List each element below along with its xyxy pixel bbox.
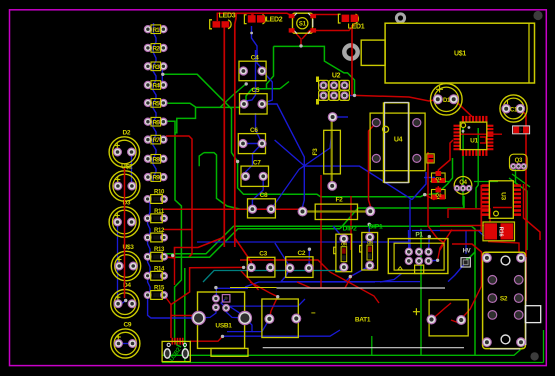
node via C4-C5 [245, 82, 248, 85]
wire blue resistor column R1-R9 [153, 23, 156, 182]
relay U4 [370, 102, 425, 182]
wire red radial column link [124, 168, 126, 298]
wire red branch D1 to U1 [454, 99, 472, 116]
resistor R13 [144, 247, 167, 261]
svg-text:D3: D3 [122, 199, 130, 206]
wire red F3 region drop [350, 196, 352, 250]
switch S2 [483, 252, 541, 349]
resistor R7 [144, 135, 167, 144]
wire blue USB1 pads [215, 288, 217, 299]
wire red S2 top-left feed [452, 244, 482, 286]
wire red R11 to F2 [163, 209, 303, 211]
wire blue long mid horizontal [275, 140, 412, 200]
LED1 [338, 14, 364, 31]
wire blue F3 top to U2 region [333, 116, 348, 118]
node via C3 left [242, 266, 245, 269]
battery BAT1 outline and labels [230, 288, 464, 348]
wire blue C4 right pad drop [262, 71, 272, 105]
capacitor C8 [248, 192, 276, 218]
wire blue R10-R15 left column [148, 199, 150, 295]
wire green Q1 area horizontals [430, 181, 450, 183]
wire teal mid run [203, 271, 345, 283]
svg-text:R1: R1 [152, 27, 160, 34]
svg-text:Q1: Q1 [435, 176, 441, 182]
wire red x192 rail [166, 136, 192, 257]
wire red U4 to F2 [369, 123, 377, 212]
svg-text:U$1: U$1 [454, 51, 466, 58]
wire blue C7 down through C8 [252, 176, 263, 209]
resistor R11 [144, 209, 167, 223]
node via bus left [171, 254, 174, 257]
svg-text:D1: D1 [443, 98, 451, 104]
header U2 [316, 73, 349, 105]
wire red S1 left to LED2 [253, 13, 291, 16]
wire red x174 down [174, 258, 176, 285]
connector P1 [388, 232, 448, 274]
svg-text:LED2: LED2 [266, 17, 283, 24]
svg-text:C6: C6 [250, 127, 258, 134]
wire red LED3-LED2 top link [217, 13, 236, 21]
wire red via to Q2 [425, 195, 436, 200]
wire green staircase R5 to C4/C5 via [164, 103, 196, 132]
hole mounting left of U$1 [344, 45, 357, 58]
wire red diag to DIP bottom [330, 272, 379, 303]
wire red R16 feeds [448, 209, 490, 222]
node via Q2 green [423, 193, 426, 196]
node via U2 right [353, 94, 356, 97]
svg-text:R4: R4 [152, 83, 160, 90]
resistor R6 [144, 117, 167, 126]
svg-text:C5: C5 [251, 87, 259, 94]
wire red U1 crossbar [460, 133, 502, 135]
wire green U1 pin down-leg 2 [476, 128, 478, 208]
node via U1 b [462, 130, 465, 133]
node via C2 [308, 248, 311, 251]
fuse F3 [312, 113, 340, 191]
LED3 [210, 13, 236, 29]
hole mounting top [396, 14, 404, 22]
diode D9 smd [427, 154, 434, 163]
capacitor C5 [240, 87, 268, 114]
wire red U3 crossbar [493, 207, 512, 209]
svg-text:R16: R16 [497, 227, 503, 238]
wire red x321 drop [320, 175, 322, 288]
wire green right rail lower [543, 330, 545, 363]
svg-text:S2: S2 [500, 296, 508, 303]
wire blue C6 to C7 [246, 144, 263, 177]
svg-text:LED3: LED3 [219, 13, 236, 20]
wire red U1 hook [480, 137, 486, 143]
capacitor/diode U$2 round radial [110, 163, 140, 201]
svg-text:U3: U3 [500, 192, 507, 200]
wire red x428 rail [428, 152, 444, 250]
wire green second USB2 rail [184, 268, 186, 362]
wire green via-C8 run to F2 region [238, 162, 425, 197]
wire blue HV diagonal [448, 262, 466, 282]
wire green stub right of C5 [267, 88, 281, 90]
wire blue via to right y336 [223, 330, 340, 336]
capacitor/diode U$3 round radial [111, 244, 140, 281]
wire blue LED2 to C4 [252, 26, 263, 71]
wire blue R15 to USB1 big pad [148, 295, 199, 318]
wire red Q1-Q2 link [437, 186, 439, 191]
svg-text:R3: R3 [152, 64, 160, 71]
resistor R16 smd power [483, 222, 515, 241]
svg-text:C3: C3 [259, 251, 267, 258]
battery BAT1 right contact [427, 300, 468, 336]
svg-text:R6: R6 [152, 119, 160, 126]
resistor R5 [144, 99, 167, 108]
hole dark top-right [533, 11, 542, 20]
wire blue C9 pads [119, 343, 133, 345]
wire blue C8 pads link [252, 208, 271, 210]
wire green bottom bus lower [162, 362, 544, 364]
node via DIP1 [368, 223, 371, 226]
wire red right column C1 down [520, 109, 526, 301]
resistor R2 [144, 44, 167, 53]
svg-text:R9: R9 [152, 175, 160, 182]
wire blue C5 to F2 diagonal [262, 104, 304, 207]
wire red S2 top right [488, 242, 519, 253]
capacitor C3 [247, 251, 275, 278]
svg-text:USB1: USB1 [215, 323, 232, 330]
wire green bus line B [173, 229, 340, 258]
wire red R15 diag [164, 295, 171, 305]
svg-text:R2: R2 [152, 46, 160, 53]
svg-text:R7: R7 [152, 137, 160, 144]
wire red P1 top right diag [438, 230, 452, 261]
transistor Q1 [432, 171, 446, 183]
resistor R10 [144, 190, 167, 204]
wire blue C2 diagonal [275, 243, 290, 282]
hole dark bottom-right [530, 352, 538, 360]
wire blue DIP1 top via drop [368, 224, 370, 238]
wire green bus line A (lower-left run to HV column) [162, 226, 475, 355]
svg-text:P1: P1 [415, 232, 423, 239]
wire green P1 column [420, 229, 422, 355]
capacitor/diode D3 round radial [109, 199, 139, 237]
svg-text:Q3: Q3 [515, 158, 523, 164]
resistor R14 [144, 266, 167, 280]
svg-text:S1: S1 [299, 22, 307, 28]
wire red LED2 over-top rail [235, 13, 252, 247]
resistor R15 [144, 286, 167, 300]
capacitor C7 [241, 159, 269, 186]
transistor Q4 [454, 177, 472, 195]
svg-text:R8: R8 [152, 156, 160, 163]
node via U1 a [468, 126, 471, 129]
wire green staircase upper branch to C5 [196, 105, 244, 108]
mcu U1 qfp [454, 116, 494, 156]
svg-text:BAT1: BAT1 [355, 317, 371, 324]
capacitor C6 [238, 127, 266, 154]
wire blue C9 stub [118, 301, 126, 307]
wire green S1 to U2 via [274, 46, 355, 95]
wire green C4 drop [246, 46, 274, 101]
wire blue y288 run [217, 287, 248, 289]
wire blue y306 run [230, 299, 305, 306]
node via P1 b [436, 259, 439, 262]
node via DIP1 low [349, 275, 352, 278]
resistor R1 [144, 25, 167, 34]
diode D5 smd [513, 126, 530, 134]
node via USB1 top [214, 286, 217, 289]
svg-text:R5: R5 [152, 101, 160, 108]
capacitor C2 [286, 250, 313, 277]
pushbutton S1 [289, 13, 316, 34]
svg-text:C1: C1 [510, 107, 518, 113]
connector USB1 [192, 292, 251, 356]
wire blue C2 right pad [308, 249, 310, 268]
node via P1 a [428, 235, 431, 238]
node via D4 [124, 299, 127, 302]
svg-text:DIP2: DIP2 [343, 225, 357, 232]
wire red rail1 elbow to R13 [166, 237, 224, 258]
wire red U3 right rail [524, 184, 541, 240]
wire green bus branch to y208 run [340, 196, 464, 229]
wire red DIP diag bottom [297, 275, 352, 288]
wire green net from R3 via to C4 column [163, 74, 238, 161]
wire green top-right diagonals to Q3 [509, 178, 527, 191]
wire green from R6 down left rail to USB2 [164, 121, 181, 347]
node via R3 green [161, 73, 164, 76]
node via green C7 [236, 160, 239, 163]
wire blue long row y242 [197, 241, 410, 243]
wire blue U4 X left [409, 200, 411, 252]
svg-text:HV: HV [463, 249, 471, 255]
resistor R3 [144, 62, 167, 71]
node via LED2 [250, 32, 253, 35]
node via BAT left [276, 295, 279, 298]
wire blue USB1 small pad right run [230, 306, 245, 318]
resistor R9 [144, 173, 167, 182]
svg-text:DIP1: DIP1 [369, 224, 383, 231]
svg-text:ON: ON [367, 240, 373, 245]
wire red S1 bottom V to via [293, 30, 301, 46]
wire blue HV riser [465, 231, 467, 255]
wire red U1 left down [438, 140, 453, 174]
resistor R8 [144, 155, 167, 164]
resistor R4 [144, 81, 167, 90]
wire blue Q1 feed [424, 177, 435, 179]
wire red LED3 right pad south rail [223, 28, 225, 248]
wire green Q2 diagonal up to U1 [425, 158, 453, 195]
svg-text:U2: U2 [332, 73, 341, 80]
battery BAT1 left contact [262, 299, 301, 338]
wire green mid vertical to C8 [204, 153, 252, 210]
diode D1 round [431, 84, 463, 116]
wire green U1 pin down-leg 1 [457, 127, 463, 190]
wire blue USB1 right to BAT [227, 318, 252, 332]
capacitor/diode D2 round radial [109, 129, 139, 167]
LED2 [244, 15, 282, 24]
svg-text:F2: F2 [336, 197, 344, 204]
wire red BAT right box link [431, 303, 451, 320]
svg-text:U1: U1 [470, 138, 478, 145]
wire green HV stub [466, 252, 475, 259]
wire green diag to C4 via [220, 84, 246, 108]
node via USB1 bottom [221, 335, 224, 338]
wire green DIP to bottom [371, 336, 373, 355]
svg-text:C4: C4 [251, 54, 259, 61]
connector U$1 [361, 23, 534, 83]
test point HV [461, 249, 471, 268]
wire blue DIP2 top diag [333, 226, 344, 239]
svg-text:U$2: U$2 [121, 163, 133, 170]
dip switch DIP2 [334, 225, 357, 271]
transistor Q3 [510, 154, 528, 170]
wire red C3/C2 row [240, 260, 330, 272]
wire blue C6 pads link [243, 143, 262, 145]
wire blue P1 risers [408, 230, 410, 252]
svg-text:C7: C7 [253, 159, 261, 166]
capacitor C1 round [500, 95, 527, 122]
wire blue C4 inner column [246, 50, 256, 101]
wire blue BAT top row [245, 282, 375, 287]
wire blue bottom row y281 [281, 281, 420, 283]
wire red to BAT left box pad [250, 282, 278, 319]
wire red USB2 branch [171, 315, 194, 317]
wire red U3 left pin rail [480, 185, 482, 232]
fuse F2 [298, 197, 375, 220]
wire red via to D1/U1 [355, 95, 438, 101]
wire red R12 feed [163, 229, 192, 231]
capacitor/diode D4 round radial [111, 282, 139, 318]
wire blue U4 X right [412, 172, 426, 200]
wire blue DIP1 bottom diag [345, 266, 370, 282]
wire blue D2-U$2 link [131, 152, 133, 186]
svg-text:U4: U4 [394, 137, 403, 144]
svg-text:D2: D2 [122, 129, 130, 136]
wire blue P1 left drop [380, 274, 402, 283]
svg-text:C2: C2 [297, 250, 305, 257]
svg-text:F3: F3 [312, 148, 319, 156]
capacitor/diode C9 round radial [111, 321, 140, 358]
wire green Q3 drop to right rail [516, 169, 528, 250]
wire red y267 run down to USB2 [171, 267, 244, 338]
dip switch DIP1 [360, 224, 383, 270]
wire red C3 diag [240, 270, 259, 290]
svg-text:C9: C9 [123, 321, 131, 328]
wire red S1 right to LED1 [316, 14, 339, 16]
wire red USB2 to via [190, 336, 223, 341]
svg-text:C8: C8 [260, 192, 268, 199]
wire blue D3-D4 link [117, 222, 119, 304]
wire red S1 lower-right run [311, 23, 355, 31]
wire green Q4 drop to bus [463, 189, 464, 208]
wire red BAT right diag [451, 286, 482, 323]
driver U3 soic [482, 181, 521, 219]
resistor R12 [144, 228, 167, 242]
svg-text:ON: ON [341, 242, 347, 247]
node via S1 bottom [299, 44, 302, 47]
wire green diag right of C5 [280, 82, 289, 89]
wire blue diagonal C8 to F3 [271, 130, 332, 209]
svg-text:LED1: LED1 [348, 24, 365, 31]
capacitor C4 [239, 54, 266, 80]
wire red rail2 elbow to C3 [235, 238, 252, 268]
wire blue C5 to C6 [256, 113, 263, 144]
svg-text:−: − [311, 309, 316, 318]
wire blue right bus y230 [412, 231, 484, 237]
wire blue U2 to via [345, 94, 355, 96]
wire green stub x199 [199, 153, 204, 167]
wire blue R3-R4 right pads link [161, 65, 163, 84]
connector USB2 [162, 338, 190, 363]
node via R8 row [161, 102, 164, 105]
transistor Q2 [432, 188, 446, 200]
svg-text:Q2: Q2 [435, 192, 441, 198]
wire green bottom bus upper [162, 348, 523, 356]
wire red LED1 south rail [351, 25, 353, 96]
